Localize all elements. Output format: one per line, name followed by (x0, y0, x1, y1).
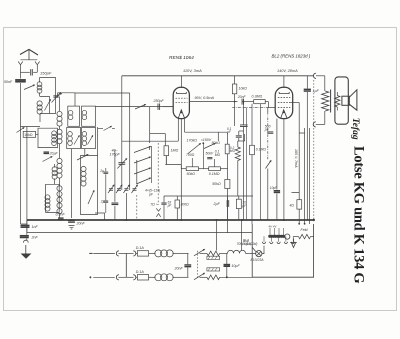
label E10-23A (251, 258, 265, 262)
tube V2 control grid (278, 107, 291, 109)
coil L10b in BL (68, 132, 73, 146)
svg-text:4V 4V: 4V 4V (269, 225, 278, 229)
switch gang link (196, 251, 198, 279)
capacitor 63uF (161, 196, 172, 220)
wire x181lower (180, 196, 182, 220)
tube V2 filament (281, 110, 287, 118)
capacitor 20pF (44, 152, 59, 156)
lamp E10 (256, 251, 262, 257)
tuned circuit box (40, 78, 56, 123)
switch S12 (204, 143, 215, 169)
label 50k upper (212, 141, 221, 145)
svg-text:10µF: 10µF (231, 264, 240, 268)
switch S3 (43, 157, 53, 162)
wire V2 below (277, 119, 284, 220)
ganged link dashed (157, 143, 159, 205)
capacitor 10uF mains (224, 253, 241, 278)
coil L3 in B1 (52, 131, 57, 146)
label 01uF (227, 127, 232, 134)
wire L6-L9 links (59, 97, 61, 219)
switch S5b top B5 (77, 155, 88, 161)
wire vert x115 (114, 150, 116, 220)
coil L8 (57, 158, 62, 178)
wire 10k to block (36, 133, 38, 135)
label 220V (243, 239, 252, 246)
ground field (290, 237, 314, 248)
switch S1 antenna (24, 85, 35, 90)
trimmer T2 (116, 185, 122, 193)
svg-text:REN$ 1064: REN$ 1064 (169, 55, 194, 61)
ground 20nF (69, 226, 75, 230)
IF block BL (67, 127, 81, 148)
transformer core bar (330, 90, 332, 113)
mains switch bottom (194, 273, 205, 280)
svg-text:(50Hz): (50Hz) (243, 242, 252, 246)
wire corner x165 (150, 134, 166, 146)
transformer primary top (228, 250, 256, 253)
switch column S8 (134, 146, 151, 152)
speaker symbol (342, 90, 357, 110)
coil L12 in B5 (81, 166, 86, 186)
IF block TR (82, 106, 96, 126)
fuse D1A top (136, 246, 149, 256)
wire y93 run (75, 92, 130, 94)
wire y168 run (181, 168, 227, 170)
switch S7 grid (135, 104, 146, 109)
wire x268 vert (267, 108, 269, 220)
svg-text:1MΩ: 1MΩ (171, 149, 179, 153)
coil L4 (52, 164, 57, 184)
coil L2 (37, 101, 42, 114)
wire choke mid taps (217, 220, 242, 251)
svg-text:110V, 3mA: 110V, 3mA (183, 68, 202, 73)
svg-text:10µF: 10µF (270, 186, 278, 190)
wire x3091 (309, 128, 311, 218)
svg-text:D.1A: D.1A (136, 270, 145, 274)
wire x2606 (260, 104, 262, 220)
jog left (95, 213, 105, 220)
wire vert x137 (136, 160, 138, 220)
wire V2 screen out (290, 103, 299, 134)
coil L11 in TR (82, 110, 87, 119)
wire secondary drops (264, 236, 293, 242)
svg-text:50kΩ: 50kΩ (212, 182, 221, 186)
wire x3046 (304, 128, 306, 218)
secondary terminals (262, 242, 295, 244)
svg-text:4Ω: 4Ω (290, 204, 295, 208)
resistor 10k v2 (232, 76, 247, 94)
wire choke to box bottom (220, 276, 253, 278)
pickup jacks (156, 208, 160, 217)
label Bl3 (237, 238, 258, 246)
IF block TL (68, 106, 80, 126)
wire 1uF stem (306, 76, 308, 218)
wire top bus (122, 75, 314, 77)
coil L6 (57, 111, 62, 126)
svg-text:50nF: 50nF (206, 151, 215, 155)
mains connector bottom (116, 275, 137, 280)
wire x244 low (238, 134, 245, 141)
svg-text:Feld: Feld (301, 228, 309, 232)
tube V2 envelope (275, 87, 293, 118)
trimmer T1 (108, 185, 114, 193)
mains switch top (194, 249, 205, 256)
wire varcap (121, 158, 123, 190)
capacitor c-b (236, 131, 244, 141)
wire V1 grid in (163, 106, 174, 108)
capacitor 20nF mains (174, 253, 192, 277)
wire left join (21, 126, 41, 128)
coil L9 (57, 186, 62, 214)
wire bank bottoms (72, 127, 98, 218)
svg-text:D.1A: D.1A (136, 246, 145, 250)
svg-text:E10/23A: E10/23A (251, 258, 265, 262)
capacitor 10uF box (236, 199, 247, 208)
svg-text:150pF: 150pF (40, 70, 52, 75)
inductor filter bottom (149, 274, 189, 281)
antenna terminal fork A1 (18, 60, 37, 68)
svg-text:20nF: 20nF (174, 266, 184, 270)
label Tefag (350, 118, 360, 140)
boundary dashed (313, 80, 315, 220)
capacitor 50nF series (4, 80, 26, 84)
tube V1 anode (177, 92, 187, 94)
speaker coil zigzag (335, 92, 340, 111)
resistor hum zigzag (322, 91, 329, 111)
IF block BR (82, 127, 96, 148)
svg-text:50nF: 50nF (4, 80, 13, 84)
capacitor C main (112, 203, 119, 205)
wire 1M down (165, 146, 167, 165)
mains terminal minus (89, 252, 115, 254)
resistor 03M (252, 94, 266, 103)
resistor 02M vert (225, 144, 235, 154)
svg-text:0.3MΩ: 0.3MΩ (252, 94, 263, 98)
svg-text:700Ω: 700Ω (186, 153, 195, 157)
resistor 10k (23, 131, 35, 137)
coil L1 (37, 78, 42, 97)
wire converge (298, 218, 309, 225)
wire tube1 anode stem (180, 76, 182, 88)
wire switch contacts vert (151, 146, 153, 183)
capacitor 1nF (21, 220, 39, 235)
switch column S10 (134, 168, 151, 174)
bus chassis lower (27, 232, 252, 234)
speaker plug hook top (313, 73, 324, 91)
wire y196 run (164, 195, 253, 197)
wire 10k v2 down (234, 94, 236, 126)
svg-text:170pF: 170pF (110, 153, 121, 157)
tube V1 envelope (173, 87, 189, 118)
wire vert x150 (149, 107, 151, 150)
switch S5 in BR (88, 136, 93, 145)
choke top (200, 251, 228, 256)
capacitor 150pF (31, 69, 52, 75)
coil L11b in BR (82, 132, 87, 146)
resistor 50k vert (212, 180, 230, 189)
capacitor 6.3nF (56, 212, 66, 219)
secondary taps (269, 225, 284, 237)
switch row y128 (98, 126, 115, 130)
wire antenna left leg upper (20, 68, 22, 79)
series caps x106 (103, 168, 108, 213)
tube V2 aux grid (278, 102, 291, 104)
capacitor c-a (240, 101, 248, 220)
coil block B1 outline (38, 128, 58, 147)
resistor 01M box (209, 159, 221, 176)
fuse bump (23, 240, 28, 253)
svg-text:300Ω: 300Ω (181, 202, 190, 206)
label 110V 3mA (183, 68, 202, 73)
antenna terminal fork A2 (35, 62, 40, 69)
wire right corners (292, 133, 305, 193)
wire V1 filament legs (178, 119, 184, 142)
speaker plug hook bottom (313, 111, 325, 127)
label 90V 0.5mA (195, 96, 215, 100)
capacitor 2uF out (213, 196, 229, 233)
capacitor 1uF (304, 89, 320, 93)
tube V1 screen grid (176, 97, 188, 99)
label 01M upper (215, 150, 221, 157)
capacitor 2nF (20, 235, 39, 240)
switch S2 (17, 128, 25, 133)
svg-text:MΩ: MΩ (215, 153, 221, 157)
wire x237 vert (238, 196, 240, 220)
label trimmers (145, 188, 160, 196)
wire vert x126 (125, 193, 127, 220)
svg-text:90V, 0.5mA: 90V, 0.5mA (195, 96, 215, 100)
ground main (21, 254, 32, 259)
wire 20nF to 03M (244, 101, 253, 103)
choke top core (207, 256, 220, 259)
label RENS 1064 (169, 55, 194, 61)
label 105V 7mA (294, 149, 298, 168)
svg-text:105 V, 7mA: 105 V, 7mA (294, 149, 298, 168)
bus chassis upper (27, 219, 315, 221)
wire y132 run (185, 132, 228, 141)
lamp wires (252, 246, 264, 254)
wire bank top (57, 93, 76, 106)
label Lotse KG und K 134 G (351, 146, 367, 283)
choke bottom (200, 275, 220, 280)
switch S6 in B5 (88, 191, 94, 205)
svg-text:2nF: 2nF (31, 235, 39, 239)
svg-text:50kΩ: 50kΩ (187, 172, 196, 176)
capacitor 20nF bank (68, 221, 85, 226)
svg-text:20nF: 20nF (237, 95, 247, 99)
resistor 1M (164, 146, 178, 165)
switch S13 (266, 161, 272, 169)
label 170k (187, 138, 198, 142)
tube V2 screen grid (278, 97, 291, 99)
svg-text:2µ: 2µ (99, 169, 104, 173)
wire heater return (134, 140, 178, 142)
variable capacitor 40-170pF (110, 149, 127, 169)
label 150V (201, 138, 212, 144)
wire antenna right leg (21, 68, 38, 72)
grid line RF (96, 106, 174, 108)
wire left vertical bus (26, 127, 28, 233)
label BL2 (272, 54, 311, 59)
wire 03M to grid (265, 102, 275, 108)
tube V1 control grid (176, 101, 188, 103)
mains terminal plus (89, 276, 114, 278)
svg-text:pF: pF (148, 192, 154, 196)
potentiometer volume (186, 144, 201, 157)
svg-text:10kΩ: 10kΩ (24, 133, 33, 137)
svg-text:≈150V: ≈150V (201, 138, 212, 142)
svg-text:2µF: 2µF (213, 202, 221, 206)
inductor filter top (149, 250, 189, 257)
wire x228 vert (227, 133, 229, 220)
svg-text:170kΩ: 170kΩ (187, 138, 198, 142)
wire x253 vert (251, 104, 253, 224)
wire V1 plate out (189, 101, 237, 103)
wire top feed corner (122, 76, 134, 158)
switch column S11 (136, 178, 150, 184)
svg-text:20nF: 20nF (76, 221, 86, 225)
coil L5 in B2 (45, 195, 50, 211)
coil block B5 outline (81, 156, 98, 215)
resistor zig mid (235, 141, 240, 196)
capacitor 20nF ct (237, 95, 247, 105)
label 2uF (99, 169, 104, 203)
trimmer T3 (123, 185, 129, 193)
power box (252, 224, 313, 277)
wire vert x130 (129, 93, 131, 190)
svg-text:0.1MΩ: 0.1MΩ (209, 172, 220, 176)
svg-text:1nF: 1nF (32, 225, 39, 229)
svg-text:Lotse KG und K 134 G: Lotse KG und K 134 G (351, 146, 367, 283)
field coil Feld (294, 228, 311, 239)
choke bottom core (207, 268, 220, 271)
svg-text:20µF: 20µF (49, 152, 59, 156)
resistor 300 box (175, 196, 189, 220)
capacitor 500pF (264, 124, 274, 133)
variable capacitor C2 (52, 93, 61, 103)
mains connector top (116, 251, 137, 256)
label 140V 28mA (277, 69, 298, 73)
wire grid dashdot (232, 107, 268, 109)
resistor 40ohm (290, 193, 302, 219)
tube V1 cathode dot (180, 111, 182, 113)
coil block B2 outline (46, 184, 60, 212)
svg-text:10kΩ: 10kΩ (239, 86, 248, 90)
switch in tuned box (45, 100, 51, 111)
trimmer T4 (132, 185, 138, 193)
svg-text:BL2 (RENS 1823d ): BL2 (RENS 1823d ) (272, 54, 311, 59)
antenna (20, 49, 38, 59)
switch S4 in BL (74, 136, 79, 145)
capacitor 50nF (206, 151, 215, 158)
speaker frame (335, 77, 348, 124)
svg-text:µF: µF (168, 204, 173, 208)
resistor 50k box (186, 158, 198, 176)
coil L10 in TL (68, 110, 73, 119)
wire x2465 (246, 108, 248, 220)
tube V2 cathode dot (283, 111, 285, 113)
svg-text:0.1MΩ: 0.1MΩ (256, 148, 267, 152)
wire x181 vert (180, 119, 182, 196)
switch column S9 (134, 157, 151, 163)
capacitor 250pF (153, 99, 165, 110)
coil L7 (57, 129, 62, 144)
label 7ohm (150, 202, 158, 206)
svg-text:250pF: 250pF (153, 99, 165, 103)
svg-text:7Ω ≈: 7Ω ≈ (150, 202, 158, 206)
wire tube2 anode stem (283, 76, 285, 88)
tube V1 filament (178, 110, 184, 118)
resistor 01M v (250, 145, 267, 154)
wire y164 run (165, 165, 181, 169)
connector link vertical (125, 253, 127, 277)
svg-text:140V, 28mA: 140V, 28mA (277, 69, 298, 73)
fuse D1A bottom (136, 270, 149, 280)
svg-text:Tefag: Tefag (350, 118, 360, 140)
capacitor 10uF cathode (270, 186, 280, 220)
tube V2 anode (279, 92, 289, 94)
wire antenna left leg lower (20, 83, 22, 224)
svg-text:6.3nF: 6.3nF (56, 212, 66, 216)
transformer secondary (269, 234, 290, 239)
